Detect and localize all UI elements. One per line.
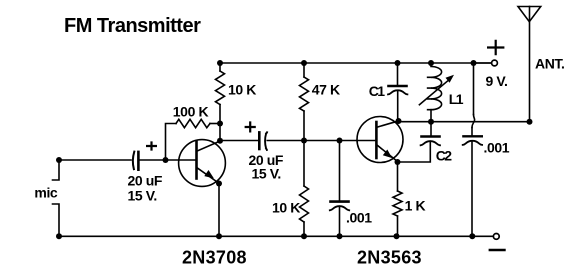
capacitor .001 right curved plate — [463, 141, 482, 145]
wire Q1 emitter column — [218, 184, 220, 237]
svg-text:2N3708: 2N3708 — [182, 248, 247, 268]
resistor R3 47K — [300, 77, 309, 111]
node dot Q1 collector — [217, 138, 223, 144]
wire bottom ground rail — [59, 235, 492, 237]
node dot top rail C1 — [395, 60, 401, 66]
wire C1 column leads — [397, 63, 399, 121]
capacitor .001 right top plate — [463, 135, 481, 137]
antenna triangle — [518, 7, 541, 22]
capacitor C1 top plate — [389, 85, 407, 88]
inductor L1 arrowhead — [446, 75, 455, 83]
inductor L1 coil ticks — [428, 77, 431, 109]
capacitor C2 curved plate — [421, 141, 440, 145]
svg-text:FM Transmitter: FM Transmitter — [64, 15, 201, 37]
wire L1 bottom to C2 top junction — [430, 122, 432, 135]
wire .001 mid column leads — [339, 141, 341, 237]
inductor L1 coil — [431, 63, 442, 122]
node dot ground Q1 emitter — [216, 233, 222, 239]
svg-text:.001: .001 — [484, 140, 510, 156]
wire 1K column leads — [397, 162, 399, 236]
capacitor 20uF input plus sign — [146, 141, 157, 150]
node dot Q2 base .001 — [337, 138, 343, 144]
transistor Q1 circle — [179, 140, 226, 187]
node dot 100K junction — [217, 121, 223, 127]
node dot mic top — [56, 157, 62, 163]
node dot top rail 10K — [217, 60, 223, 66]
wire 47K column leads — [303, 63, 305, 141]
svg-text:C1: C1 — [369, 83, 386, 99]
transistor Q1 emitter arrowhead — [204, 170, 214, 178]
svg-text:100 K: 100 K — [173, 104, 209, 120]
capacitor 20uF coupling plus sign — [245, 121, 256, 132]
wire 10K2 column leads — [303, 141, 305, 237]
battery plus sign — [487, 40, 504, 56]
svg-text:20 uF: 20 uF — [128, 173, 163, 189]
transistor Q2 collector lead — [378, 121, 399, 127]
wire antenna lead — [529, 7, 531, 122]
capacitor 20uF input curved plate — [133, 152, 134, 170]
svg-text:10 K: 10 K — [228, 82, 256, 98]
transistor Q2 base bar — [375, 122, 378, 158]
wire collector column 10K leads — [219, 63, 221, 141]
wire cap1 to Q1 base — [140, 159, 196, 161]
wire 100K right lead to collector column — [210, 123, 220, 125]
transistor Q1 emitter lead — [198, 168, 219, 183]
node dot ground 10K2 — [301, 233, 307, 239]
capacitor C2 top plate — [422, 135, 440, 138]
transistor Q2 circle — [357, 117, 403, 163]
svg-text:C2: C2 — [436, 147, 453, 163]
inductor L1 tuning arrow line — [419, 80, 448, 105]
wire 100K left lead down to base node — [166, 124, 177, 161]
capacitor 20uF coupling curved plate — [265, 132, 267, 150]
wire C2 bottom lead and link to Q2 emitter — [398, 141, 430, 162]
node dot top rail L1 — [428, 60, 434, 66]
wire Q1 collector node to cap2 — [220, 140, 258, 142]
resistor R4 10K bias — [300, 186, 309, 222]
wire hop over collector line — [472, 115, 475, 128]
node dot Q2 base 47K — [301, 138, 307, 144]
wire top supply rail — [220, 62, 491, 64]
svg-text:mic: mic — [34, 185, 58, 201]
resistor R1 10K collector load — [216, 71, 225, 105]
node dot top rail 47K — [301, 60, 307, 66]
node dot L1 C2 junction — [428, 119, 434, 125]
node dot ground .001 mid — [337, 233, 343, 239]
mic top hook — [53, 160, 60, 180]
svg-text:1 K: 1 K — [405, 198, 426, 214]
wire 9V column to .001 cap — [471, 128, 473, 136]
node dot Q1 base — [163, 157, 169, 163]
wire 9V column upper — [473, 63, 475, 115]
transistor Q2 emitter arrowhead — [383, 150, 392, 159]
resistor R5 1K emitter — [393, 191, 402, 216]
wire mic top to cap — [59, 159, 131, 161]
wire top rail to 9V terminal — [474, 62, 492, 64]
capacitor 20uF coupling straight plate — [258, 132, 261, 149]
transistor Q2 emitter lead — [378, 146, 398, 162]
capacitor C1 curved plate — [388, 90, 407, 94]
node dot Q1 emitter — [216, 181, 222, 187]
resistor R2 100K feedback — [176, 119, 210, 127]
node dot top rail 9V branch — [471, 60, 477, 66]
svg-text:ANT.: ANT. — [535, 56, 565, 72]
svg-text:L1: L1 — [449, 91, 464, 107]
node dot Q2 emitter — [395, 159, 401, 165]
capacitor 20uF input straight plate — [137, 152, 140, 170]
wire cap2 to Q2 base — [267, 140, 376, 142]
svg-text:.001: .001 — [346, 210, 372, 226]
battery minus terminal circle — [493, 234, 499, 240]
node dot mic bottom — [56, 233, 62, 239]
battery plus terminal circle — [492, 60, 498, 66]
svg-text:15 V.: 15 V. — [252, 165, 281, 181]
svg-text:47 K: 47 K — [312, 82, 340, 98]
svg-text:9 V.: 9 V. — [486, 73, 508, 89]
battery minus sign — [489, 249, 506, 251]
svg-text:15 V.: 15 V. — [128, 188, 157, 204]
capacitor .001 middle top plate — [331, 200, 349, 203]
transistor Q1 base bar — [195, 142, 198, 179]
svg-text:2N3563: 2N3563 — [357, 248, 422, 268]
transistor Q1 collector lead — [198, 141, 221, 151]
mic bottom hook — [53, 204, 60, 236]
svg-text:10 K: 10 K — [272, 200, 300, 216]
node dot Q2 collector — [396, 118, 402, 124]
capacitor .001 middle curved plate — [330, 206, 349, 210]
node dot ground 1K — [394, 233, 400, 239]
wire Q2 collector line to antenna — [399, 121, 530, 123]
node dot antenna junction — [527, 119, 533, 125]
node dot ground 9V — [469, 233, 475, 239]
wire .001 right bottom lead — [471, 142, 473, 236]
